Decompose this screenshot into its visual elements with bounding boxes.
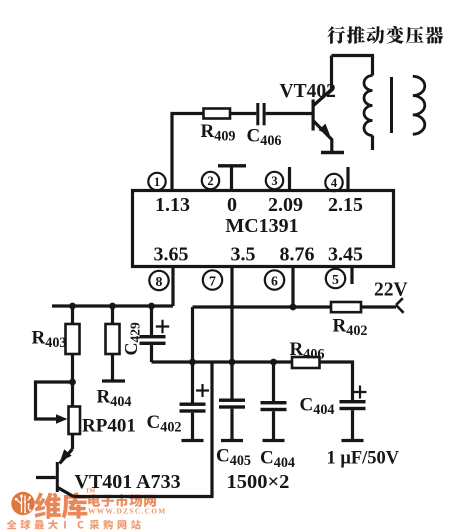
- pin 3 label: [266, 172, 283, 189]
- capacitor C406: [256, 103, 265, 125]
- capacitor C429: [140, 306, 170, 362]
- resistor R404: [102, 306, 125, 381]
- svg-text:VT401 A733: VT401 A733: [75, 471, 181, 493]
- wire VT401 collector to sawtooth rail: [74, 362, 213, 497]
- svg-text:2.09: 2.09: [268, 194, 303, 216]
- svg-text:0: 0: [227, 194, 237, 216]
- watermark 维库: [34, 492, 87, 518]
- svg-text:3.65: 3.65: [154, 244, 189, 266]
- wiper arrow into RP401: [56, 414, 68, 424]
- node C405 junction: [229, 359, 236, 366]
- wire R406 to C404 electrolytic: [320, 362, 353, 400]
- svg-text:R404: R404: [97, 387, 132, 411]
- svg-text:2.15: 2.15: [328, 194, 363, 216]
- resistor R402: [331, 302, 361, 312]
- wire R406 rail: [152, 360, 293, 363]
- transformer T402 primary winding: [364, 76, 373, 136]
- wire pin 7 down to C405: [230, 267, 233, 399]
- pin 3 stub: [288, 167, 291, 191]
- ground (VT402 emitter): [321, 151, 344, 155]
- svg-text:R409: R409: [201, 121, 236, 145]
- pin 4 stub: [346, 167, 349, 191]
- watermark 全球最大IC采购网站: [7, 520, 141, 530]
- svg-text:8: 8: [156, 274, 163, 289]
- node C429 top: [148, 303, 155, 310]
- svg-text:3.5: 3.5: [231, 244, 256, 266]
- transformer T402 secondary winding: [413, 76, 425, 134]
- node C402 junction: [189, 359, 196, 366]
- label 行推动变压器 (line drive transformer): [327, 26, 443, 44]
- resistor R409: [204, 109, 231, 119]
- wire pin8 rail corner down to R406 rail: [191, 307, 194, 362]
- pin 6 label: [265, 270, 284, 289]
- wire 22V rail: [193, 305, 397, 308]
- wire collector to transformer: [332, 56, 373, 76]
- transistor VT401: [36, 449, 74, 497]
- node pin6 junction: [290, 304, 297, 311]
- wire left supply rail: [52, 304, 173, 307]
- watermark logo disc: [11, 492, 34, 515]
- pin 4 label: [325, 174, 342, 191]
- pin 1 label: [148, 173, 165, 190]
- resistor R406: [292, 357, 320, 368]
- svg-text:R406: R406: [290, 339, 325, 363]
- svg-text:4: 4: [331, 176, 338, 190]
- svg-text:3.45: 3.45: [328, 244, 363, 266]
- capacitor C402: [180, 362, 210, 441]
- node C404 junction: [270, 359, 277, 366]
- pin 8 label: [149, 271, 168, 290]
- node R404 top: [109, 303, 116, 310]
- IC U401 MC1391: [133, 191, 394, 267]
- svg-text:1 μF/50V: 1 μF/50V: [327, 449, 400, 469]
- svg-text:C405: C405: [216, 446, 251, 470]
- svg-text:R402: R402: [333, 316, 368, 340]
- wire RP401 wiper loop: [36, 382, 73, 419]
- svg-text:8.76: 8.76: [280, 244, 315, 266]
- pin 2 terminal T: [218, 166, 246, 191]
- wire pin1 to R409: [172, 114, 204, 191]
- resistor R403: [66, 306, 80, 382]
- svg-text:C406: C406: [247, 126, 282, 150]
- svg-text:5: 5: [332, 272, 339, 287]
- pin 2 label: [202, 172, 219, 189]
- capacitor C404 electrolytic 1uF/50V: [340, 386, 367, 441]
- pin 7 label: [203, 270, 222, 289]
- svg-text:1: 1: [154, 175, 160, 189]
- svg-text:6: 6: [271, 273, 278, 288]
- potentiometer RP401: [69, 382, 81, 449]
- wire C406 to VT402 base: [266, 112, 312, 115]
- svg-text:C429: C429: [121, 322, 143, 356]
- svg-text:R403: R403: [32, 328, 67, 352]
- svg-text:1500×2: 1500×2: [227, 471, 290, 493]
- wire pin 8 down: [171, 267, 174, 307]
- svg-text:7: 7: [209, 273, 216, 288]
- wire pin 6 down: [291, 267, 294, 308]
- svg-text:C404: C404: [300, 395, 335, 419]
- watermark 电子市场网: [88, 494, 156, 507]
- svg-text:1.13: 1.13: [155, 194, 190, 216]
- svg-text:22V: 22V: [374, 280, 408, 301]
- node R403 top: [69, 303, 76, 310]
- pin 5 label: [326, 269, 345, 288]
- svg-text:2: 2: [207, 174, 213, 188]
- svg-text:C402: C402: [147, 412, 182, 436]
- node R403 bottom junction: [69, 379, 76, 386]
- transistor VT402: [312, 56, 332, 152]
- terminal 22V: [396, 298, 404, 313]
- wire R409 to C406: [230, 112, 256, 115]
- capacitor C405: [219, 399, 245, 441]
- svg-text:RP401: RP401: [82, 416, 136, 437]
- svg-text:C404: C404: [260, 448, 295, 472]
- svg-text:3: 3: [271, 174, 277, 188]
- transformer core: [390, 77, 393, 133]
- svg-text:WWW.DZSC.COM: WWW.DZSC.COM: [88, 507, 167, 516]
- capacitor C404 (first): [261, 362, 287, 441]
- pin 5 stub: [350, 267, 353, 285]
- wire transformer primary bottom lead: [371, 136, 374, 151]
- svg-text:MC1391: MC1391: [225, 215, 298, 237]
